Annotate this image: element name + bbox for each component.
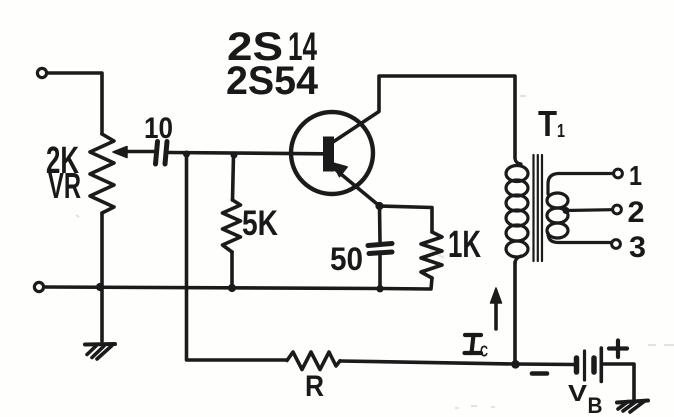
svg-text:C: C xyxy=(480,344,488,361)
svg-text:1: 1 xyxy=(629,160,642,191)
svg-text:10: 10 xyxy=(144,112,173,145)
svg-text:T: T xyxy=(538,103,557,144)
svg-text:3: 3 xyxy=(629,231,646,264)
svg-text:V: V xyxy=(568,380,588,406)
svg-text:1K: 1K xyxy=(448,224,481,266)
svg-text:2: 2 xyxy=(628,196,645,229)
svg-text:1: 1 xyxy=(557,121,565,141)
svg-text:50: 50 xyxy=(330,241,363,277)
svg-text:R: R xyxy=(305,370,324,403)
svg-text:VR: VR xyxy=(48,165,81,206)
svg-text:5K: 5K xyxy=(242,204,278,243)
svg-text:2S54: 2S54 xyxy=(226,59,319,103)
svg-text:B: B xyxy=(588,393,603,417)
